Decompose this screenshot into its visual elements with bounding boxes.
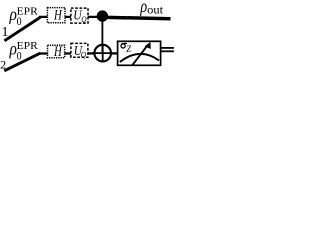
CNOT target XOR on qubit 2 (94, 45, 111, 62)
svg-text:Q: Q (81, 14, 87, 24)
wire top between H and U (65, 16, 71, 18)
sigma_Z gate label (121, 44, 125, 48)
CNOT control dot on qubit 1 (97, 10, 108, 21)
gate U_Q qubit 2 (dashed box) (71, 43, 88, 59)
wire top before H (39, 16, 48, 18)
svg-text:EPR: EPR (17, 40, 39, 52)
wire bottom to meter (111, 52, 118, 54)
wire top output (thick) (102, 17, 171, 18)
svg-text:EPR: EPR (17, 6, 39, 18)
wire diagonal input qubit 2 (4, 53, 40, 71)
svg-text:H: H (53, 44, 63, 60)
meter needle (132, 45, 148, 65)
node rho_out output label (140, 0, 164, 16)
svg-text:Q: Q (81, 49, 87, 59)
classical double wire out of meter (161, 48, 174, 51)
svg-text:H: H (53, 8, 63, 24)
node rho0_EPR input label qubit 2 (9, 39, 39, 63)
wire diagonal input qubit 1 (4, 17, 40, 40)
wire bottom between H and U (65, 52, 72, 54)
node rho0_EPR input label qubit 1 (9, 4, 39, 28)
gate H qubit 1 (dashed box) (47, 8, 65, 24)
CNOT vertical link (101, 16, 103, 53)
wire bottom from U to CNOT target (88, 52, 95, 54)
meter arc (120, 54, 159, 62)
wire top from U to CNOT control (88, 16, 98, 18)
svg-text:out: out (147, 4, 164, 16)
gate H qubit 2 (dashed box) (48, 44, 65, 60)
wire bottom before H (39, 52, 48, 54)
gate U_Q qubit 1 (dashed box) (71, 8, 88, 24)
svg-text:Z: Z (126, 44, 131, 55)
measurement meter box sigma_Z (118, 41, 161, 65)
